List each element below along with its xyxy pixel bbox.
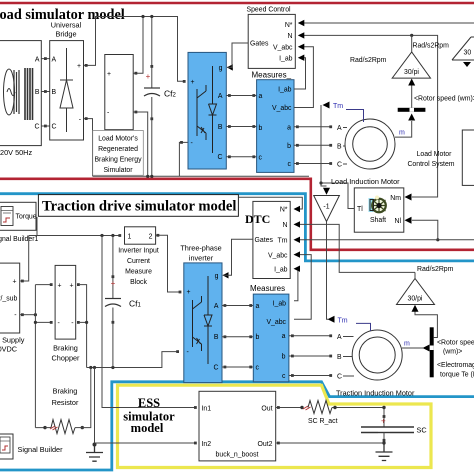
svg-text:C: C bbox=[214, 364, 219, 371]
bus selector 2 (vertical bar) bbox=[430, 327, 434, 377]
svg-text:v/_sub: v/_sub bbox=[0, 296, 17, 303]
wire DTC Tm from right edge, junction to Shaft Nl bbox=[297, 239, 474, 241]
yellow boundary: ESS simulator model box bbox=[118, 385, 432, 467]
Load Motor Control System box (cropped) bbox=[462, 130, 474, 185]
svg-text:V_abc: V_abc bbox=[266, 319, 286, 326]
capacitor Cf2 bbox=[144, 15, 177, 178]
wires Measures1 abc out to load motor ABC bbox=[294, 127, 332, 164]
Braking Chopper block bbox=[55, 265, 76, 339]
svg-text:Traction Induction Motor: Traction Induction Motor bbox=[336, 389, 415, 398]
svg-text:Load Motor: Load Motor bbox=[417, 151, 453, 158]
Speed Control block bbox=[248, 14, 295, 68]
three-phase AC source block 220V 50Hz bbox=[0, 41, 41, 146]
Load Motor's Regenerated Braking Energy Simulator block bbox=[105, 55, 133, 130]
svg-text:<Electromagnetic: <Electromagnetic bbox=[437, 362, 474, 369]
svg-text:Tm: Tm bbox=[333, 103, 343, 110]
svg-text:c: c bbox=[282, 373, 286, 380]
svg-text:A: A bbox=[52, 56, 57, 63]
svg-text:b: b bbox=[259, 125, 263, 132]
svg-text:a: a bbox=[287, 124, 291, 131]
wire Signal Builder1 out down to braking DC rail bbox=[36, 217, 38, 236]
svg-text:V_abc: V_abc bbox=[272, 105, 292, 112]
svg-text:C: C bbox=[35, 124, 40, 131]
svg-text:model: model bbox=[131, 421, 164, 435]
svg-text:1: 1 bbox=[128, 233, 132, 240]
svg-text:a: a bbox=[282, 333, 286, 340]
svg-text:N: N bbox=[288, 33, 293, 40]
wires source to bridge bbox=[41, 59, 49, 126]
svg-text:V_abc: V_abc bbox=[268, 252, 288, 259]
svg-text:-: - bbox=[14, 312, 16, 319]
svg-text:Braking: Braking bbox=[53, 387, 78, 396]
svg-text:+: + bbox=[191, 79, 195, 86]
wire measure block out to inverter2 + bbox=[156, 235, 180, 292]
svg-text:+: + bbox=[58, 282, 62, 289]
svg-text:Torque: Torque bbox=[16, 214, 37, 221]
svg-text:<Rotor speed: <Rotor speed bbox=[437, 340, 474, 347]
gain 30/pi (traction side) bbox=[397, 279, 435, 305]
svg-text:-: - bbox=[191, 140, 193, 147]
svg-text:-: - bbox=[79, 117, 81, 124]
svg-text:N*: N* bbox=[280, 207, 288, 214]
svg-text:N: N bbox=[283, 222, 288, 229]
wire In1 from braking rail bbox=[102, 236, 196, 408]
svg-text:Speed Control: Speed Control bbox=[247, 6, 292, 13]
wire Out to SC via R_act resistor bbox=[276, 407, 302, 409]
svg-text:DC Supply: DC Supply bbox=[0, 335, 25, 344]
svg-text:Tm: Tm bbox=[338, 317, 348, 324]
svg-text:Out: Out bbox=[261, 405, 272, 412]
svg-text:Braking Energy: Braking Energy bbox=[94, 157, 142, 164]
svg-text:Load Induction Motor: Load Induction Motor bbox=[331, 177, 400, 186]
svg-text:Rad/s2Rpm: Rad/s2Rpm bbox=[417, 266, 454, 273]
svg-text:Tm: Tm bbox=[278, 237, 288, 244]
svg-text:Gates: Gates bbox=[250, 41, 269, 48]
svg-text:+: + bbox=[187, 289, 191, 296]
wire bridge+ up to top DC rail bbox=[84, 17, 185, 82]
svg-text:Current: Current bbox=[127, 258, 150, 265]
svg-text:B: B bbox=[218, 124, 223, 131]
capacitor Cf1 bbox=[105, 236, 142, 368]
svg-text:Shaft: Shaft bbox=[370, 217, 386, 224]
svg-text:Bridge: Bridge bbox=[55, 30, 76, 39]
svg-text:-: - bbox=[71, 320, 73, 327]
wire DTC Gates to inverter2 g bbox=[223, 239, 253, 275]
svg-text:C: C bbox=[337, 162, 342, 169]
svg-text:Rad/s2Rpm: Rad/s2Rpm bbox=[413, 43, 450, 50]
svg-text:+: + bbox=[381, 417, 386, 426]
bottom braking rail bbox=[87, 352, 178, 368]
svg-text:Three-phase: Three-phase bbox=[180, 244, 221, 253]
cyan boundary: Traction drive simulator model section bbox=[0, 194, 474, 261]
ground (braking/ESS common) bbox=[94, 368, 96, 445]
svg-text:<Rotor speed (wm)>: <Rotor speed (wm)> bbox=[414, 96, 474, 103]
wire load motor sim - to rail bbox=[133, 112, 148, 176]
svg-text:m: m bbox=[399, 130, 405, 137]
svg-text:(wm)>: (wm)> bbox=[443, 349, 462, 356]
wire supply + up to braking rail bbox=[20, 236, 29, 282]
svg-text:B: B bbox=[337, 143, 342, 150]
svg-text:30/pi: 30/pi bbox=[408, 296, 423, 303]
svg-text:a: a bbox=[259, 93, 263, 100]
svg-text:Traction drive simulator model: Traction drive simulator model bbox=[42, 199, 236, 215]
svg-text:In2: In2 bbox=[202, 441, 212, 448]
gain 30/pi (load side) bbox=[392, 52, 430, 78]
svg-text:+: + bbox=[111, 279, 116, 288]
svg-text:Chopper: Chopper bbox=[52, 354, 81, 363]
wire N* reference (from right edge) into Speed Control N* bbox=[301, 22, 474, 24]
svg-text:220V 50Hz: 220V 50Hz bbox=[0, 148, 32, 157]
svg-text:Load Motor's: Load Motor's bbox=[98, 136, 138, 143]
svg-text:Signal Builder1: Signal Builder1 bbox=[0, 236, 39, 243]
Tm input of load motor bbox=[323, 102, 330, 109]
m output of traction motor to bus selector 2 bbox=[402, 347, 423, 349]
-1 gain triangle bbox=[314, 196, 340, 222]
svg-text:-: - bbox=[187, 349, 189, 356]
svg-text:A: A bbox=[218, 93, 223, 100]
wire inverter1 minus to bottom rail bbox=[179, 142, 188, 176]
svg-text:m: m bbox=[404, 340, 410, 347]
svg-text:-: - bbox=[58, 320, 60, 327]
svg-text:Signal Builder: Signal Builder bbox=[18, 445, 64, 454]
wire In2 from ground junction bbox=[95, 442, 197, 444]
svg-text:Block: Block bbox=[130, 279, 147, 286]
wire 30/pi 2 output up to feedback line bbox=[414, 272, 416, 278]
wires inverter1 ABC to Measures1 abc bbox=[226, 96, 256, 157]
svg-text:inverter: inverter bbox=[189, 254, 214, 263]
svg-text:SC: SC bbox=[417, 426, 427, 435]
resistor SC R_act bbox=[308, 401, 332, 414]
Inverter Input Current Measure Block bbox=[125, 227, 156, 244]
svg-text:Nm: Nm bbox=[390, 195, 401, 202]
svg-text:B: B bbox=[52, 89, 57, 96]
buck_n_boost block bbox=[199, 391, 276, 461]
load induction motor (circle) bbox=[345, 119, 395, 169]
wire Measures1 I_ab out to Speed Control I_ab bbox=[294, 58, 306, 89]
Signal Builder (bottom-left) bbox=[0, 434, 13, 459]
svg-text:I_ab: I_ab bbox=[273, 301, 287, 308]
DTC block bbox=[253, 201, 290, 278]
svg-text:A: A bbox=[337, 334, 342, 341]
wire bus selector 2 to 30/pi gain 2 bbox=[415, 311, 437, 338]
wire Measures1 V_abc out to Speed Control V_abc bbox=[294, 47, 313, 108]
braking top DC rail bbox=[29, 235, 120, 237]
arrow into g of inverter2 bbox=[223, 272, 229, 278]
svg-text:Control System: Control System bbox=[407, 161, 454, 168]
svg-text:a: a bbox=[256, 303, 260, 310]
left braking vertical (supply-, chopper left, resistor left) bbox=[35, 285, 50, 428]
title: ESS simulator model bbox=[123, 396, 175, 435]
svg-text:Measures: Measures bbox=[250, 284, 285, 293]
svg-text:30/pi: 30/pi bbox=[404, 69, 419, 76]
red boundary: Load simulator model section bbox=[0, 2, 474, 5]
svg-text:2: 2 bbox=[149, 233, 153, 240]
svg-text:A: A bbox=[35, 56, 40, 63]
arrow into g of inverter1 bbox=[227, 64, 233, 70]
svg-text:750VDC: 750VDC bbox=[0, 345, 17, 354]
svg-text:b: b bbox=[287, 143, 291, 150]
svg-text:Measure: Measure bbox=[125, 268, 152, 275]
wire torque (from Shaft Tl) vertical bbox=[321, 105, 354, 209]
svg-text:A: A bbox=[214, 303, 219, 310]
svg-text:B: B bbox=[337, 354, 342, 361]
svg-text:torque Te (N: torque Te (N bbox=[440, 372, 474, 379]
svg-text:-: - bbox=[107, 110, 109, 117]
m output of load motor to bus selector bbox=[395, 121, 412, 137]
svg-text:C: C bbox=[337, 374, 342, 381]
wire 30/pi output up to N line bbox=[411, 35, 413, 52]
svg-text:30: 30 bbox=[464, 50, 472, 57]
svg-text:I_ab: I_ab bbox=[274, 266, 288, 273]
svg-text:Resistor: Resistor bbox=[52, 398, 79, 407]
svg-text:Measures_: Measures_ bbox=[252, 70, 292, 79]
three-phase inverter 2 (traction, blue) bbox=[184, 263, 222, 383]
svg-text:c: c bbox=[288, 161, 292, 168]
svg-text:-1: -1 bbox=[323, 204, 329, 211]
wire N (load speed) line to Speed Control N and down to Shaft Nm bbox=[301, 35, 438, 197]
wire DTC N from 30/pi2 feedback bbox=[297, 224, 415, 272]
svg-text:g: g bbox=[219, 65, 223, 72]
svg-text:Out2: Out2 bbox=[258, 441, 273, 448]
wire into Shaft Nl from Tm line bbox=[412, 220, 438, 240]
svg-text:C: C bbox=[52, 124, 57, 131]
wire bridge- down to bottom rail bbox=[84, 119, 93, 177]
svg-text:+: + bbox=[77, 63, 81, 70]
svg-text:+: + bbox=[107, 71, 111, 78]
Measures1 block (blue) bbox=[257, 80, 294, 173]
bottom DC rail (load section) bbox=[93, 175, 309, 177]
wire supply - to left braking vertical bbox=[20, 314, 36, 316]
svg-text:g: g bbox=[215, 273, 219, 280]
svg-text:Rad/s2Rpm: Rad/s2Rpm bbox=[350, 57, 387, 64]
wires chopper right ports to bottom braking rail bbox=[80, 285, 87, 368]
svg-text:I_ab: I_ab bbox=[278, 87, 292, 94]
svg-text:b: b bbox=[256, 334, 260, 341]
svg-text:b: b bbox=[282, 353, 286, 360]
svg-text:Nl: Nl bbox=[394, 218, 401, 225]
three-phase inverter 1 (load side, blue) bbox=[188, 52, 226, 169]
svg-text:Regenerated: Regenerated bbox=[98, 146, 138, 153]
wire bus selector 1 up to 30/pi gain bbox=[411, 84, 413, 108]
traction induction motor (circle) bbox=[352, 330, 402, 380]
svg-text:+: + bbox=[12, 279, 16, 286]
ground under SC bbox=[376, 443, 393, 461]
title box: Traction drive simulator model bbox=[38, 195, 238, 217]
svg-text:B: B bbox=[214, 334, 219, 341]
wire -1 output down to traction motor Tm bbox=[327, 222, 329, 320]
label box: Load Motor's Regenerated Braking Energy Simulator bbox=[93, 131, 144, 176]
svg-text:c: c bbox=[259, 155, 263, 162]
svg-text:DTC: DTC bbox=[245, 212, 270, 226]
wires Measures2 abc out to traction motor ABC bbox=[289, 336, 332, 376]
svg-text:Universal: Universal bbox=[51, 21, 82, 30]
wire DTC V_abc from Measures2 bbox=[294, 255, 311, 320]
Shaft block bbox=[354, 188, 404, 232]
wire N* loop over DTC (from title box to N*) bbox=[239, 197, 303, 209]
wire Speed Control Gates to inverter1 g bbox=[227, 43, 248, 67]
Signal Builder1 (Torque) block bbox=[0, 202, 37, 230]
svg-text:buck_n_boost: buck_n_boost bbox=[216, 452, 259, 459]
svg-text:Simulator: Simulator bbox=[103, 167, 133, 174]
wire resistor right up to rail bbox=[82, 368, 91, 428]
Measures2 block (blue) bbox=[253, 294, 289, 382]
svg-text:B: B bbox=[35, 89, 40, 96]
Universal Bridge block bbox=[50, 41, 84, 140]
svg-text:c: c bbox=[256, 364, 260, 371]
wire load motor sim + to rail bbox=[133, 17, 143, 74]
supercapacitor SC bbox=[361, 406, 427, 443]
svg-text:V_abc: V_abc bbox=[273, 44, 293, 51]
svg-text:Braking: Braking bbox=[53, 344, 78, 353]
wire DTC I_ab from Measures2 bbox=[294, 269, 298, 301]
svg-text:N*: N* bbox=[285, 22, 293, 29]
svg-text:+: + bbox=[69, 282, 73, 289]
DC Supply 750VDC block bbox=[0, 263, 20, 333]
shaft gear icon bbox=[369, 198, 374, 212]
svg-text:SC R_act: SC R_act bbox=[308, 418, 338, 425]
svg-text:In1: In1 bbox=[202, 405, 212, 412]
svg-text:I_ab: I_ab bbox=[279, 55, 293, 62]
wire Out2 to SC bottom bbox=[276, 442, 384, 444]
svg-text:C: C bbox=[218, 154, 223, 161]
diode symbol bbox=[66, 48, 68, 132]
svg-text:Gates: Gates bbox=[255, 237, 274, 244]
svg-text:Tl: Tl bbox=[357, 206, 363, 213]
wires inverter2 ABC to Measures2 abc bbox=[222, 306, 253, 368]
svg-text:A: A bbox=[337, 125, 342, 132]
bus selector 1 (horizontal bar) bbox=[398, 108, 426, 112]
svg-text:Inverter Input: Inverter Input bbox=[118, 247, 159, 254]
svg-text:+: + bbox=[146, 72, 151, 81]
